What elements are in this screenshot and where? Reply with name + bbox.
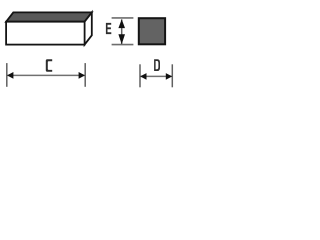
dimension D: tick left bbox=[139, 64, 141, 87]
dimension C: tick left bbox=[6, 63, 8, 87]
dimension E: extension line top bbox=[112, 17, 134, 19]
dimension C: arrow shaft bbox=[7, 74, 85, 76]
block right side face bbox=[85, 12, 92, 44]
block front face bbox=[6, 22, 85, 45]
label C bbox=[46, 59, 52, 72]
dimension E: arrowhead up bbox=[118, 19, 125, 28]
dimension C: tick right bbox=[84, 63, 86, 87]
dimension D: arrowhead right bbox=[166, 73, 172, 80]
block top face bbox=[6, 12, 92, 21]
dimension E: arrowhead down bbox=[118, 34, 125, 44]
dimension C: arrowhead right bbox=[79, 72, 85, 79]
dimension D: tick right bbox=[171, 64, 173, 87]
dimension D: arrowhead left bbox=[140, 73, 146, 80]
dimension C: arrowhead left bbox=[7, 72, 13, 79]
dimension E: extension line bottom bbox=[112, 44, 134, 46]
label E bbox=[106, 23, 111, 34]
dimension D: arrow shaft bbox=[140, 75, 172, 77]
label D bbox=[154, 59, 160, 71]
end-view square bbox=[139, 18, 165, 44]
dimension E: vertical arrow shaft bbox=[121, 19, 123, 44]
